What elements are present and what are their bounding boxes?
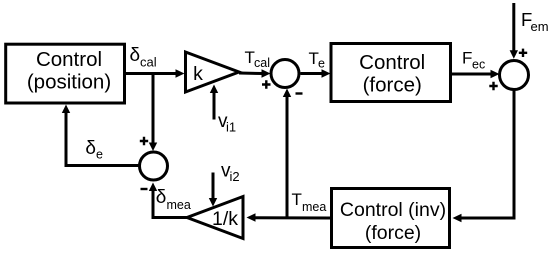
wire: T_mea from Control (inv) to 1/k triangle bbox=[247, 213, 331, 221]
svg-text:Control (inv): Control (inv) bbox=[340, 199, 446, 221]
label T_e bbox=[309, 49, 326, 71]
block: Control (force) bbox=[331, 44, 451, 102]
gain triangle 1/k bbox=[187, 197, 243, 239]
summing junction S3 bbox=[140, 152, 168, 180]
wire: T_cal from k triangle to S1 bbox=[239, 69, 271, 77]
svg-text:i2: i2 bbox=[230, 169, 240, 184]
svg-text:k: k bbox=[193, 63, 203, 85]
wire: T_mea branch up into S1 bbox=[283, 89, 291, 219]
wire: F_ec from Control(force) to S2 bbox=[452, 70, 500, 78]
svg-text:cal: cal bbox=[140, 55, 157, 70]
svg-text:(force): (force) bbox=[365, 222, 421, 244]
svg-text:mea: mea bbox=[302, 200, 326, 214]
minus sign at S1 (T_mea input) bbox=[296, 92, 303, 94]
svg-text:e: e bbox=[96, 148, 103, 162]
svg-text:(position): (position) bbox=[27, 71, 111, 94]
label T_cal bbox=[245, 48, 270, 70]
wire: from S2 down and left into Control (inv) bbox=[453, 90, 515, 223]
svg-text:T: T bbox=[292, 190, 302, 209]
summing junction S1 bbox=[271, 60, 299, 88]
svg-text:em: em bbox=[531, 19, 549, 34]
wire: v_i2 input into 1/k triangle bbox=[209, 173, 217, 207]
wire: T_e from S1 to Control(force) bbox=[301, 69, 331, 77]
svg-text:δ: δ bbox=[156, 187, 167, 208]
plus sign at S2 (F_ec input) bbox=[489, 82, 497, 90]
label v_i2 bbox=[221, 161, 240, 185]
wire: branch from delta_cal down to S3 bbox=[149, 72, 157, 151]
svg-text:F: F bbox=[462, 49, 472, 68]
plus sign at S1 (T_cal input) bbox=[262, 80, 271, 88]
label v_i1 bbox=[218, 111, 236, 135]
block: Control (position) bbox=[6, 44, 125, 103]
svg-text:cal: cal bbox=[254, 56, 270, 70]
summing junction S2 bbox=[500, 61, 529, 90]
gain triangle k bbox=[186, 52, 240, 92]
label F_em bbox=[521, 9, 549, 34]
svg-text:i1: i1 bbox=[226, 120, 236, 135]
svg-text:e: e bbox=[318, 57, 325, 71]
wire: delta_mea from 1/k apex to S3 bbox=[149, 183, 187, 218]
label delta_mea bbox=[156, 187, 191, 212]
svg-text:ec: ec bbox=[472, 58, 485, 72]
svg-text:Control: Control bbox=[36, 48, 102, 71]
svg-text:Control: Control bbox=[359, 51, 425, 74]
wire: v_i1 input into k triangle bbox=[210, 85, 218, 120]
svg-text:1/k: 1/k bbox=[212, 208, 238, 230]
wire: F_em input from top into S2 bbox=[510, 3, 518, 59]
svg-text:δ: δ bbox=[130, 45, 141, 66]
plus sign at S3 (delta_cal input) bbox=[140, 137, 148, 145]
label delta_cal bbox=[130, 45, 157, 70]
svg-text:mea: mea bbox=[167, 198, 191, 212]
label delta_e bbox=[85, 138, 103, 162]
svg-text:δ: δ bbox=[85, 138, 96, 159]
label F_ec bbox=[462, 49, 485, 72]
plus sign at S2 (F_em input) bbox=[519, 49, 527, 57]
wire: delta_cal from Control(position) to k triangle bbox=[126, 69, 185, 77]
minus sign at S3 (delta_mea input) bbox=[141, 188, 148, 190]
label T_mea bbox=[292, 190, 327, 214]
svg-text:(force): (force) bbox=[363, 74, 422, 97]
block: Control (inv) (force) bbox=[332, 189, 450, 248]
wire: delta_e from S3 to Control(position) bbox=[62, 105, 140, 166]
